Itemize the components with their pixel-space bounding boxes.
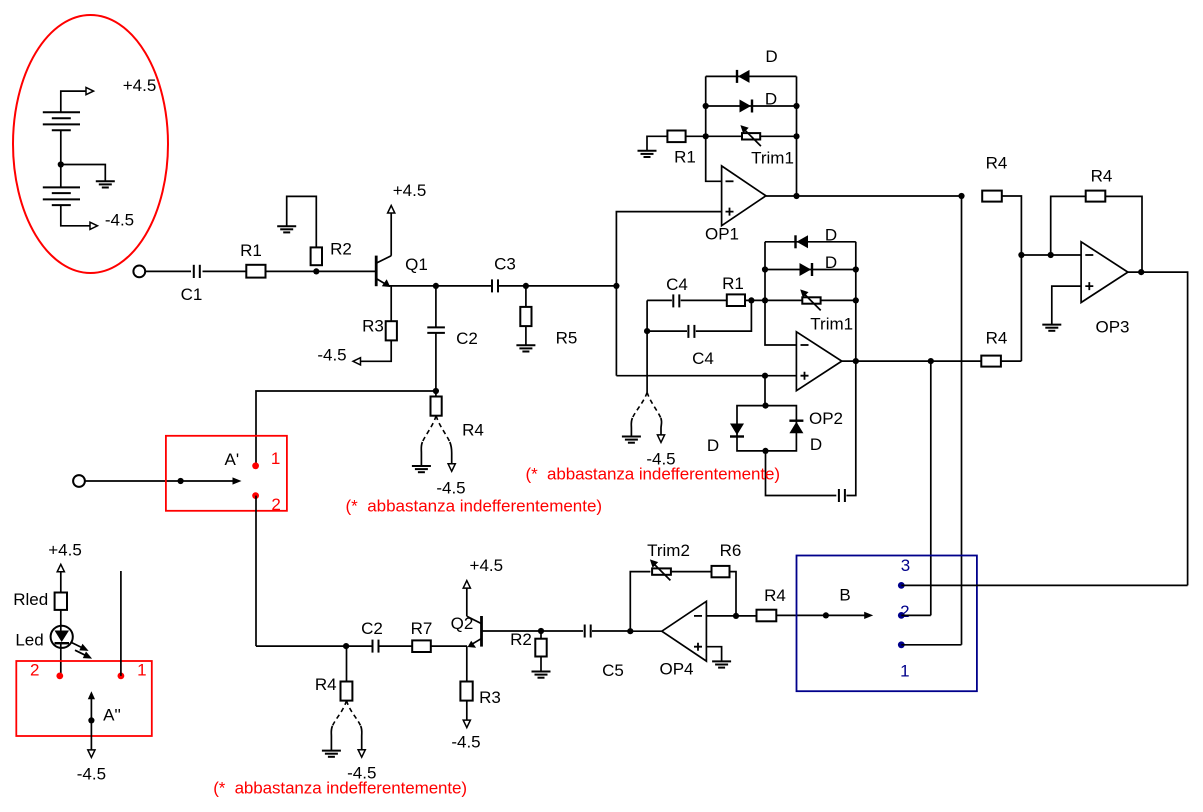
svg-text:R4: R4 [462,421,484,440]
resistor R2 (Q2) [540,631,542,639]
wire left rail OP2 network [765,242,796,345]
svg-text:-4.5: -4.5 [77,765,106,784]
wire OP1 output row [766,195,962,197]
node pin 1 (blue dot) [898,641,905,648]
wire rail to OP1 plus input [616,212,721,286]
resistor R4 (bottom) [346,646,348,681]
svg-text:R3: R3 [479,688,501,707]
svg-text:2: 2 [30,661,39,680]
svg-text:R3: R3 [362,317,384,336]
node -4.5 arrow fork OP2 [657,435,664,443]
resistor R4 (B row) [757,610,777,622]
trimmer Trim1 (OP2) [800,289,853,333]
ground R1 [638,151,657,157]
svg-text:R4: R4 [764,586,786,605]
node -4.5 arrow R3 [353,358,361,365]
LED Led [15,626,72,650]
wire pin1 to OP1 output line [901,644,961,646]
svg-text:R4: R4 [1091,167,1113,186]
svg-text:-4.5: -4.5 [436,479,465,498]
diode D top OP2 (pointing left) [796,226,838,249]
svg-text:D: D [765,47,777,66]
node pin 1 (red dot) [252,462,259,469]
node pin 2 (blue dot) [898,612,905,619]
diode D second (pointing right) [740,90,778,113]
wire Q2 emitter down to R3 [466,646,468,681]
node pin 2 (red dot) [252,492,259,499]
svg-text:R4: R4 [986,154,1008,173]
wire plus down to diode pair [764,376,766,406]
svg-text:C4: C4 [692,349,714,368]
resistor R6 [712,566,730,577]
wire OP4 plus to ground [706,647,721,662]
wire Trim1 row OP2 [765,299,856,301]
node center dot A'' [88,717,94,723]
resistor Rled [55,593,67,610]
wire feedback left vertical [1051,196,1086,255]
ground R2 [277,226,296,232]
wire R6 down to minus row [730,572,737,616]
resistor R4 (top) [982,191,1002,202]
svg-text:Q2: Q2 [451,614,474,633]
wire right rail OP1 network [796,76,798,196]
svg-text:C1: C1 [181,285,203,304]
svg-text:C2: C2 [456,329,478,348]
node -4.5 arrow A'' [88,750,95,758]
resistor R2 [311,247,322,265]
wire feedback up from output [630,572,650,632]
battery B1 (upper) [43,112,80,130]
node rail dots trim row [703,133,709,139]
wire C2 down to junction [435,333,437,391]
wire R3 to -4.5 [361,340,392,361]
node -4.5 arrow R3 Q2 [463,720,470,728]
ground OP4 [712,661,731,667]
node input terminal 2 [73,475,85,487]
svg-text:1: 1 [900,662,909,681]
transistor Q2 [451,614,482,648]
wire Q2 base row to OP4 [482,630,630,632]
resistor R1 (OP2) [727,294,745,306]
diode D second OP2 (pointing right) [800,253,838,276]
svg-text:2: 2 [900,602,909,621]
svg-text:Rled: Rled [13,590,48,609]
wire OP2 plus row [616,375,796,377]
svg-text:-4.5: -4.5 [451,733,480,752]
wire input to C1 [145,270,191,272]
wire right rail OP2 network [855,242,857,361]
wire second diode row [706,105,797,107]
resistor R5 [525,286,527,307]
wire R2 to ground [287,196,317,247]
wire left rail OP1 network [706,76,722,181]
transistor Q1 [376,255,428,287]
wire OP3 output [1128,272,1188,585]
wire bottom row to Q2 emitter [256,645,467,647]
ground fork R4 bottom [322,751,341,757]
svg-text:R2: R2 [330,240,352,259]
wire C4 left vertical [646,300,648,392]
svg-text:Trim1: Trim1 [751,149,794,168]
wire OP2 output row [842,360,982,362]
svg-text:(* abbastanza indefferentemen: (* abbastanza indefferentemente) [526,465,781,484]
node rail dots second row [703,103,709,109]
battery B2 (lower) [43,187,80,205]
wire arrow A' [181,480,233,482]
wire Q1 emitter row [389,285,616,287]
svg-text:(* abbastanza indefferentemen: (* abbastanza indefferentemente) [213,779,467,798]
wire dashed fork R4 [422,416,436,442]
wire emitter to R3 [390,286,392,321]
svg-text:Trim2: Trim2 [647,541,690,560]
node pin 3 (blue dot) [898,582,905,589]
node junction R2 [313,268,319,274]
svg-text:A': A' [225,450,240,469]
svg-text:-4.5: -4.5 [105,211,134,230]
wire pair bottom to feedback cap [766,451,837,496]
trimmer Trim1 [740,125,794,167]
op-amp OP4 (pointing left) [659,601,706,678]
wire pin2 to branch line [901,614,931,616]
wire second diode row OP2 [765,269,856,271]
node mid junction [58,161,64,167]
diode D top (pointing left) [737,47,778,83]
node OP3 output dot [1138,269,1144,275]
svg-text:(* abbastanza indefferentemen: (* abbastanza indefferentemente) [346,497,603,516]
wire battery midpoint [60,130,62,187]
svg-text:D: D [810,435,822,454]
node rail dots trim row [762,297,768,303]
node R4 junction bottom [343,643,349,649]
svg-text:OP3: OP3 [1095,318,1129,337]
wire R4 to rail [1001,360,1022,362]
svg-text:1: 1 [271,449,280,468]
svg-text:1: 1 [137,661,146,680]
node minus tap dot [1018,252,1024,258]
resistor R7 [412,640,431,652]
wire C1 to R1 [203,270,247,272]
svg-text:R1: R1 [240,241,262,260]
ground R2 Q2 [532,672,551,678]
node +4.5 arrow Q2 [463,581,470,589]
svg-text:+4.5: +4.5 [393,181,427,200]
node arrow junction dot [178,478,184,484]
wire center arrow A'' [88,691,95,699]
wire pin3 to OP3 output line [901,584,1187,586]
wire Q2 collector to +4.5 [466,588,468,616]
node plus junction [762,373,768,379]
box A'' (red) [16,661,152,736]
wire dashed fork OP2 minus net [632,392,647,418]
wire feedback right vertical [1105,196,1142,272]
wire OP4 minus row [706,615,756,617]
svg-text:R5: R5 [556,329,578,348]
op-amp OP3 [1081,242,1129,337]
capacitor C3 [492,279,498,292]
ground fork OP2 [622,437,641,443]
capacitor C5 [585,625,591,638]
node C4 lower junction [644,328,650,334]
resistor R1 [246,265,265,278]
wire R1 to left rail [686,135,706,137]
wire input 2 to arrow [85,480,181,482]
wire to ground [61,165,106,182]
node feedback dot [733,613,739,619]
wire R1 to left rail [745,299,765,301]
wire dashed fork R4 bottom [332,701,346,726]
op-amp OP2 [796,332,843,428]
node input terminal [133,266,145,278]
svg-text:Led: Led [15,631,43,650]
resistor R4 (OP3 feedback) [1086,191,1106,202]
node OP1 out R4 dot [958,193,964,199]
svg-text:C4: C4 [666,275,688,294]
resistor R4 (lower) [981,356,1001,367]
node pair top dot [762,403,768,409]
resistor R3 [386,321,397,340]
wire R1 to Q1 base [266,270,376,272]
svg-text:Q1: Q1 [405,255,428,274]
node +4.5 arrow led [57,564,64,572]
node OP4 output junction [627,628,633,634]
wire junction left and down to A' pin1 [256,391,436,466]
node B junction dot [823,612,829,618]
box A' (red) [166,436,287,511]
wire rail down to OP2 plus row [615,286,617,376]
resistor R1 (OP1 minus to ground) [667,131,685,143]
svg-text:A'': A'' [103,706,121,725]
svg-text:D: D [707,436,719,455]
trimmer Trim2 [647,541,690,580]
node pin 1 A'' (red dot) [118,673,125,680]
node -4.5 arrow fork [448,464,455,472]
wire Rled to Led [60,610,62,631]
capacitor feedback OP2 [839,489,845,502]
ground battery mid [96,181,115,187]
svg-text:Trim1: Trim1 [810,315,853,334]
wire Led to pin2 [60,643,62,676]
svg-text:OP4: OP4 [659,660,693,679]
svg-text:3: 3 [901,556,910,575]
red ellipse around battery supply [13,15,168,273]
wire pin2 down to bottom row [255,496,257,646]
wire branch down to blue pin2 [930,361,932,615]
wire arrow B [826,614,865,616]
wire OP3 minus row [1021,254,1081,256]
resistor R4 below C2 [435,391,437,397]
capacitor C2 [427,327,445,333]
wire R2 to ground [540,657,542,672]
diode D left (pointing down) [707,424,744,456]
svg-text:C5: C5 [602,661,624,680]
diode D right (pointing up) [789,421,822,454]
capacitor C2 (bottom) [373,640,379,653]
capacitor C4 (lower) [688,325,694,338]
ground R5 [516,345,535,351]
wire R4 to down rail [1002,196,1022,361]
node main rail junction [613,283,619,289]
diode pair loop [737,406,796,451]
wire lower C4 row [647,300,751,331]
wire C4 row to R1 [647,299,727,301]
wire emitter junction down to C2 [435,286,437,328]
wire R5 to ground [525,326,527,345]
wire battery -4.5 tap [61,205,91,226]
capacitor C1 [194,265,200,278]
wire Trim1 row [706,135,797,137]
ground OP3 [1042,325,1061,331]
wire top diode row [706,75,797,77]
wire battery +4.5 tap [61,91,87,112]
svg-text:+4.5: +4.5 [48,541,82,560]
svg-text:R2: R2 [510,630,532,649]
wire stub above pin1 [120,571,122,676]
svg-text:C2: C2 [361,619,383,638]
svg-text:R1: R1 [674,148,696,167]
node +4.5 arrow [86,88,94,95]
node -4.5 arrow fork bottom [358,750,365,758]
wire led emission arrows [72,643,85,649]
wire top diode row OP2 [765,241,856,243]
svg-text:-4.5: -4.5 [317,346,346,365]
wire R3 to -4.5 [466,701,468,721]
node pin 2 A'' (red dot) [56,673,63,680]
svg-text:B: B [839,586,850,605]
svg-text:R4: R4 [315,675,337,694]
svg-text:D: D [825,253,837,272]
svg-text:C3: C3 [494,255,516,274]
svg-text:R7: R7 [411,619,433,638]
node R2 junction [538,628,544,634]
ground fork R4 [412,466,431,472]
node OP1 out rail dot [793,193,799,199]
node -4.5 arrow [90,222,98,229]
wire OP4 output to junction [630,630,662,632]
wire trim2 to R6 [671,571,711,573]
svg-text:OP1: OP1 [705,225,739,244]
node C3 out junction [523,283,529,289]
wire R1 to ground [647,136,667,151]
resistor R3 (Q2) [460,682,472,701]
svg-text:R6: R6 [720,541,742,560]
wire junction down to blue pin1 [961,196,963,645]
node emitter junction [433,283,439,289]
node R1 out dot [748,297,754,303]
node C2 bottom junction [433,388,439,394]
node output rail dot [853,358,859,364]
svg-text:2: 2 [271,495,280,514]
capacitor C4 (top) [673,294,679,307]
wire Q1 collector to +4.5 [390,213,392,256]
node output branch dot [928,358,934,364]
wire OP3 plus to ground [1052,286,1081,325]
svg-text:R1: R1 [722,274,744,293]
svg-text:+4.5: +4.5 [470,556,504,575]
wire cap to right rail [846,361,855,495]
wire +4.5 to Rled [60,571,62,592]
svg-text:D: D [765,90,777,109]
node pair bottom dot [762,448,768,454]
svg-text:R4: R4 [986,329,1008,348]
node +4.5 arrow Q1 [388,206,395,214]
node rail dots [762,266,768,272]
svg-text:OP2: OP2 [809,409,843,428]
wire R4 to B junction [776,614,826,616]
svg-text:+4.5: +4.5 [123,76,157,95]
box B (blue) [797,556,977,692]
op-amp OP1 [705,166,766,244]
node feedback tap dot [1048,252,1054,258]
svg-text:D: D [825,226,837,245]
